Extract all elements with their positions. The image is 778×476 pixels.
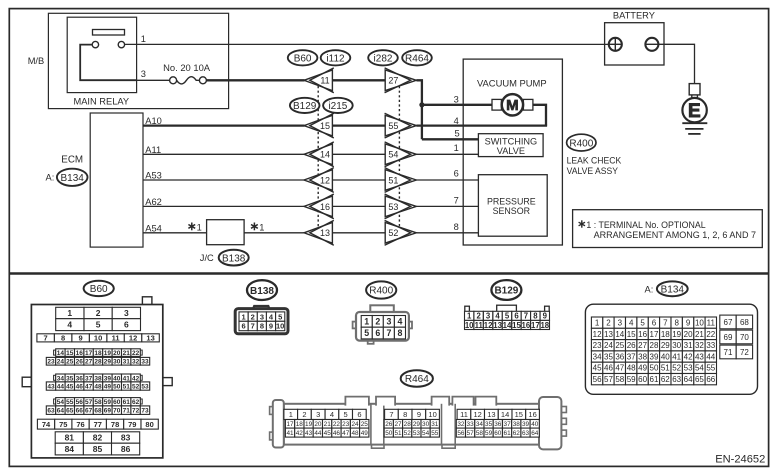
svg-text:30: 30: [422, 421, 430, 428]
connector R464 pins 1-6: [284, 409, 366, 419]
svg-text:No. 20 10A: No. 20 10A: [163, 62, 211, 73]
svg-text:B60: B60: [90, 284, 108, 295]
connector oval i282: [368, 50, 398, 65]
svg-text:55: 55: [431, 430, 439, 437]
svg-text:5: 5: [344, 410, 348, 419]
svg-text:53: 53: [413, 430, 421, 437]
svg-text:78: 78: [111, 420, 119, 429]
svg-text:6: 6: [454, 169, 459, 179]
connector oval R464: [402, 50, 432, 65]
svg-text:J/C: J/C: [200, 253, 214, 263]
svg-text:32: 32: [457, 421, 465, 428]
battery negative terminal: [645, 38, 658, 51]
svg-text:1: 1: [242, 312, 246, 321]
connector pin 53: [385, 194, 417, 219]
svg-text:8: 8: [533, 312, 538, 321]
svg-text:44: 44: [314, 430, 322, 437]
svg-text:A:: A:: [645, 284, 654, 294]
svg-text:27: 27: [85, 359, 93, 366]
svg-text:2: 2: [302, 410, 306, 419]
ECM box: [90, 113, 143, 247]
svg-text:38: 38: [513, 421, 521, 428]
connector B60 pins 84-86: [55, 443, 140, 455]
svg-text:62: 62: [513, 430, 521, 437]
svg-text:14: 14: [615, 330, 624, 339]
svg-text:47: 47: [85, 383, 93, 390]
svg-text:3: 3: [141, 69, 146, 79]
wire connector 13 to 52: [332, 232, 385, 234]
svg-text:13: 13: [146, 334, 154, 343]
svg-text:22: 22: [132, 350, 140, 357]
ground point E: [682, 98, 706, 122]
svg-text:19: 19: [672, 330, 681, 339]
wire to ground point: [691, 95, 693, 99]
svg-text:27: 27: [388, 76, 398, 86]
svg-text:60: 60: [494, 430, 502, 437]
svg-text:61: 61: [504, 430, 512, 437]
wire ECM A54 to connector 13: [143, 232, 305, 234]
svg-text:10: 10: [276, 322, 284, 331]
svg-text:83: 83: [121, 433, 131, 443]
svg-text:15: 15: [515, 410, 523, 419]
svg-text:64: 64: [684, 375, 693, 384]
svg-text:19: 19: [104, 350, 112, 357]
svg-text:35: 35: [66, 375, 74, 382]
svg-text:18: 18: [296, 421, 304, 428]
svg-text:5: 5: [278, 312, 282, 321]
svg-text:A:: A:: [46, 173, 55, 183]
connector B138 pins 1-5: [239, 312, 285, 321]
wire relay pin 3 to fuse: [137, 79, 170, 81]
svg-text:58: 58: [94, 399, 102, 406]
svg-text:35: 35: [485, 421, 493, 428]
svg-text:13: 13: [320, 228, 330, 238]
svg-text:27: 27: [638, 341, 647, 350]
svg-text:6: 6: [242, 322, 246, 331]
svg-text:15: 15: [320, 121, 330, 131]
svg-text:8: 8: [674, 319, 679, 328]
svg-text:M/B: M/B: [28, 56, 45, 66]
svg-text:5: 5: [640, 319, 645, 328]
svg-text:63: 63: [672, 375, 681, 384]
svg-text:10: 10: [465, 321, 474, 330]
connector R464 pins 7-10: [385, 409, 440, 419]
svg-text:68: 68: [740, 318, 749, 327]
svg-text:73: 73: [141, 408, 149, 415]
svg-text:11: 11: [707, 319, 716, 328]
svg-text:B129: B129: [494, 286, 518, 297]
svg-text:42: 42: [296, 430, 304, 437]
svg-text:VACUUM PUMP: VACUUM PUMP: [477, 78, 547, 89]
svg-text:45: 45: [324, 430, 332, 437]
wire ECM A62 to connector 16: [143, 205, 305, 207]
svg-text:45: 45: [593, 364, 602, 373]
svg-text:39: 39: [650, 352, 659, 361]
svg-text:4: 4: [629, 319, 634, 328]
connector R464 pins 11-16: [457, 409, 539, 419]
svg-text:58: 58: [615, 375, 624, 384]
svg-text:9: 9: [79, 334, 83, 343]
svg-text:21: 21: [695, 330, 704, 339]
svg-text:16: 16: [522, 321, 531, 330]
wire connector 16 to 53: [332, 205, 385, 207]
svg-text:3: 3: [386, 317, 391, 327]
svg-text:55: 55: [706, 364, 715, 373]
svg-text:ARRANGEMENT AMONG 1, 2, 6 AND: ARRANGEMENT AMONG 1, 2, 6 AND 7: [594, 230, 756, 240]
svg-text:R464: R464: [405, 54, 429, 65]
wire connector 11 to 27: [332, 79, 385, 81]
svg-text:1: 1: [364, 317, 369, 327]
svg-text:60: 60: [638, 375, 647, 384]
connector pin 11: [304, 68, 334, 93]
pressure sensor box: [478, 175, 547, 237]
svg-text:46: 46: [333, 430, 341, 437]
svg-text:57: 57: [604, 375, 613, 384]
svg-text:14: 14: [501, 410, 509, 419]
svg-text:7: 7: [44, 334, 48, 343]
svg-text:61: 61: [123, 399, 131, 406]
svg-text:1: 1: [595, 319, 600, 328]
svg-text:5: 5: [455, 129, 460, 139]
svg-text:4: 4: [495, 312, 500, 321]
wire pin 8 to pressure sensor: [416, 232, 478, 234]
svg-text:43: 43: [305, 430, 313, 437]
svg-text:18: 18: [94, 350, 102, 357]
svg-text:47: 47: [342, 430, 350, 437]
svg-text:26: 26: [385, 421, 393, 428]
svg-text:21: 21: [123, 350, 131, 357]
svg-text:6: 6: [357, 410, 361, 419]
svg-text:38: 38: [638, 352, 647, 361]
wire connector 14 to 54: [332, 153, 385, 155]
svg-text:43: 43: [47, 383, 55, 390]
svg-text:34: 34: [593, 352, 602, 361]
battery positive terminal: [609, 38, 622, 51]
wire ECM A10 to connector 15: [143, 124, 305, 126]
svg-text:29: 29: [661, 341, 670, 350]
svg-text:3: 3: [316, 410, 320, 419]
svg-text:81: 81: [65, 433, 75, 443]
svg-text:41: 41: [672, 352, 681, 361]
connector B60 pins 43-53: [46, 382, 149, 391]
svg-text:31: 31: [123, 359, 131, 366]
connector B60 pins 81-83: [55, 432, 140, 443]
svg-text:6: 6: [652, 319, 657, 328]
svg-text:24: 24: [57, 359, 65, 366]
connector B60 housing: [22, 297, 172, 458]
svg-text:24: 24: [604, 341, 613, 350]
svg-text:69: 69: [724, 333, 733, 342]
svg-text:7: 7: [386, 328, 391, 338]
svg-text:7: 7: [524, 312, 528, 321]
svg-text:21: 21: [324, 421, 332, 428]
svg-text:43: 43: [695, 352, 704, 361]
connector B60 pins 23-33: [46, 357, 149, 365]
connector oval i215: [323, 98, 353, 113]
svg-text:9: 9: [417, 410, 421, 419]
svg-text:29: 29: [104, 359, 112, 366]
svg-text:22: 22: [706, 330, 715, 339]
svg-text:14: 14: [503, 321, 512, 330]
note text: [579, 220, 756, 240]
note box *1 terminal arrangement: [573, 210, 763, 248]
svg-text:37: 37: [504, 421, 512, 428]
svg-text:49: 49: [638, 364, 647, 373]
svg-text:ECM: ECM: [61, 155, 83, 166]
svg-text:62: 62: [132, 399, 140, 406]
svg-text:32: 32: [695, 341, 704, 350]
svg-text:8: 8: [454, 222, 459, 232]
svg-text:84: 84: [65, 444, 75, 454]
svg-text:82: 82: [93, 433, 103, 443]
svg-text:72: 72: [132, 408, 140, 415]
svg-text:39: 39: [104, 375, 112, 382]
svg-text:37: 37: [627, 352, 636, 361]
svg-text:59: 59: [485, 430, 493, 437]
junction box J/C on A54 wire: [207, 220, 245, 245]
wire pin 5 to switching valve: [422, 138, 479, 140]
svg-text:20: 20: [684, 330, 693, 339]
svg-text:65: 65: [66, 408, 74, 415]
wire relay contact to pin 3: [80, 45, 136, 81]
svg-text:31: 31: [684, 341, 693, 350]
svg-text:24: 24: [351, 421, 359, 428]
connector pin 55: [385, 113, 417, 138]
svg-text:25: 25: [66, 359, 74, 366]
svg-text:9: 9: [543, 312, 548, 321]
svg-text:50: 50: [650, 364, 659, 373]
svg-text:25: 25: [615, 341, 624, 350]
connector pin 13: [304, 220, 334, 245]
connector B134 housing: [585, 304, 757, 394]
svg-text:49: 49: [104, 383, 112, 390]
connector R464 pins 26-31: [384, 420, 439, 429]
svg-text:48: 48: [351, 430, 359, 437]
svg-text:7: 7: [389, 410, 393, 419]
connector oval R400 layout: [366, 281, 396, 298]
svg-text:8: 8: [260, 322, 264, 331]
svg-text:63: 63: [522, 430, 530, 437]
svg-text:46: 46: [604, 364, 613, 373]
svg-text:1: 1: [67, 308, 72, 318]
relay contact left: [92, 41, 98, 47]
svg-text:61: 61: [650, 375, 659, 384]
svg-text:A53: A53: [145, 171, 162, 181]
svg-text:5: 5: [364, 328, 369, 338]
connector oval B60 layout: [84, 281, 114, 296]
svg-text:53: 53: [388, 202, 398, 212]
svg-text:8: 8: [61, 334, 65, 343]
svg-text:63: 63: [47, 408, 55, 415]
connector R464 pins 50-55: [384, 428, 439, 437]
svg-text:71: 71: [724, 348, 733, 357]
connector pin 12: [304, 168, 334, 193]
svg-text:67: 67: [85, 408, 93, 415]
svg-text:54: 54: [57, 399, 65, 406]
wire motor loop: [533, 105, 546, 126]
svg-text:12: 12: [484, 321, 493, 330]
connector B60 pins 34-42: [54, 375, 143, 380]
svg-text:11: 11: [460, 410, 468, 419]
svg-text:12: 12: [593, 330, 602, 339]
svg-text:22: 22: [333, 421, 341, 428]
svg-text:72: 72: [740, 348, 749, 357]
svg-text:11: 11: [475, 321, 484, 330]
svg-text:67: 67: [724, 318, 733, 327]
svg-text:66: 66: [706, 375, 715, 384]
svg-text:54: 54: [695, 364, 704, 373]
svg-text:64: 64: [57, 408, 65, 415]
svg-text:3: 3: [486, 312, 491, 321]
svg-text:18: 18: [540, 321, 549, 330]
svg-text:12: 12: [320, 175, 330, 185]
svg-text:36: 36: [615, 352, 624, 361]
svg-text:7: 7: [251, 322, 255, 331]
svg-text:44: 44: [706, 352, 715, 361]
svg-text:48: 48: [94, 383, 102, 390]
svg-text:23: 23: [342, 421, 350, 428]
svg-text:27: 27: [394, 421, 402, 428]
connector B138 housing: [235, 306, 288, 334]
connector oval B129: [290, 98, 320, 113]
svg-text:17: 17: [650, 330, 659, 339]
svg-text:1 : TERMINAL No. OPTIONAL: 1 : TERMINAL No. OPTIONAL: [586, 220, 705, 230]
svg-text:60: 60: [113, 399, 121, 406]
connector B138 pins 6-10: [239, 321, 285, 330]
fuse No. 20 10A: [163, 62, 211, 84]
svg-text:18: 18: [661, 330, 670, 339]
svg-text:17: 17: [286, 421, 294, 428]
svg-text:1: 1: [197, 222, 202, 232]
svg-text:30: 30: [672, 341, 681, 350]
connector B60 pins 4-6: [56, 319, 141, 331]
motor terminal right: [523, 99, 533, 110]
svg-text:3: 3: [454, 95, 459, 105]
svg-text:3: 3: [124, 308, 129, 318]
svg-text:70: 70: [113, 408, 121, 415]
svg-text:A54: A54: [145, 223, 162, 233]
wire fuse to connector 11: [206, 79, 304, 81]
svg-text:5: 5: [505, 312, 510, 321]
svg-text:i282: i282: [374, 54, 393, 65]
svg-text:85: 85: [93, 444, 103, 454]
svg-text:64: 64: [531, 430, 539, 437]
connector R464 pins 32-40: [456, 420, 539, 429]
svg-text:7: 7: [663, 319, 668, 328]
svg-text:i215: i215: [328, 101, 347, 112]
svg-text:69: 69: [104, 408, 112, 415]
connector B134 pins 67-72: [720, 315, 753, 329]
wire ECM A53 to connector 12: [143, 179, 305, 181]
svg-text:12: 12: [129, 334, 137, 343]
svg-text:15: 15: [627, 330, 636, 339]
connector pin 51: [385, 168, 417, 193]
svg-text:51: 51: [388, 175, 398, 185]
vacuum pump motor M: [502, 94, 523, 115]
wire pin 3 to vacuum pump motor: [421, 104, 492, 106]
svg-text:28: 28: [404, 421, 412, 428]
svg-text:16: 16: [320, 202, 330, 212]
svg-text:28: 28: [650, 341, 659, 350]
svg-text:2: 2: [375, 317, 380, 327]
svg-text:62: 62: [661, 375, 670, 384]
svg-text:11: 11: [320, 76, 329, 86]
battery box: [605, 23, 664, 65]
svg-text:49: 49: [361, 430, 369, 437]
svg-text:13: 13: [604, 330, 613, 339]
svg-text:80: 80: [145, 420, 153, 429]
svg-text:VALVE: VALVE: [497, 146, 525, 156]
svg-text:SWITCHING: SWITCHING: [485, 136, 538, 146]
svg-text:26: 26: [76, 359, 84, 366]
svg-text:3: 3: [618, 319, 623, 328]
svg-text:2: 2: [251, 312, 255, 321]
svg-text:50: 50: [113, 383, 121, 390]
svg-text:14: 14: [320, 150, 330, 160]
svg-text:29: 29: [413, 421, 421, 428]
svg-text:B60: B60: [294, 54, 312, 65]
svg-text:BATTERY: BATTERY: [613, 11, 655, 21]
svg-text:3: 3: [260, 312, 264, 321]
wire connector 15 to 55: [332, 124, 385, 126]
svg-text:41: 41: [123, 375, 131, 382]
svg-text:16: 16: [528, 410, 536, 419]
connector R464 pins 41-49: [285, 428, 369, 437]
dashed connector line left column: [317, 86, 319, 233]
svg-text:52: 52: [672, 364, 681, 373]
connector pin 27: [385, 68, 417, 93]
relay coil: [93, 30, 125, 36]
svg-text:40: 40: [661, 352, 670, 361]
star *1 right of junction box: [251, 223, 258, 231]
svg-text:VALVE ASSY: VALVE ASSY: [567, 166, 618, 176]
svg-text:37: 37: [85, 375, 93, 382]
svg-text:1: 1: [289, 410, 293, 419]
svg-text:A11: A11: [145, 145, 161, 155]
connector B60 pins 1-3: [56, 307, 141, 318]
svg-text:B134: B134: [61, 173, 85, 184]
svg-text:40: 40: [113, 375, 121, 382]
connector B60 pins 54-62: [54, 399, 143, 404]
svg-text:16: 16: [638, 330, 647, 339]
svg-text:66: 66: [76, 408, 84, 415]
connector B60 pins 74-80: [37, 419, 158, 429]
svg-text:44: 44: [57, 383, 65, 390]
svg-text:33: 33: [141, 359, 149, 366]
svg-text:4: 4: [397, 317, 402, 327]
connector R464 pins 17-25: [285, 420, 369, 429]
connector R400 pins 1-4: [361, 316, 405, 328]
connector R400 housing: [353, 305, 412, 344]
svg-text:28: 28: [94, 359, 102, 366]
svg-text:57: 57: [467, 430, 475, 437]
svg-text:53: 53: [684, 364, 693, 373]
svg-text:56: 56: [593, 375, 602, 384]
connector pin 14: [304, 142, 334, 167]
svg-text:B138: B138: [222, 253, 246, 264]
svg-text:1: 1: [141, 34, 146, 44]
svg-text:19: 19: [305, 421, 313, 428]
connector oval R400: [567, 134, 596, 151]
svg-text:7: 7: [454, 196, 459, 206]
svg-text:14: 14: [57, 350, 65, 357]
svg-text:i112: i112: [326, 54, 345, 65]
svg-text:51: 51: [123, 383, 131, 390]
connector R464 housing: [270, 397, 567, 450]
svg-text:40: 40: [531, 421, 539, 428]
svg-text:5: 5: [96, 320, 101, 330]
svg-text:EN-24652: EN-24652: [715, 453, 765, 465]
